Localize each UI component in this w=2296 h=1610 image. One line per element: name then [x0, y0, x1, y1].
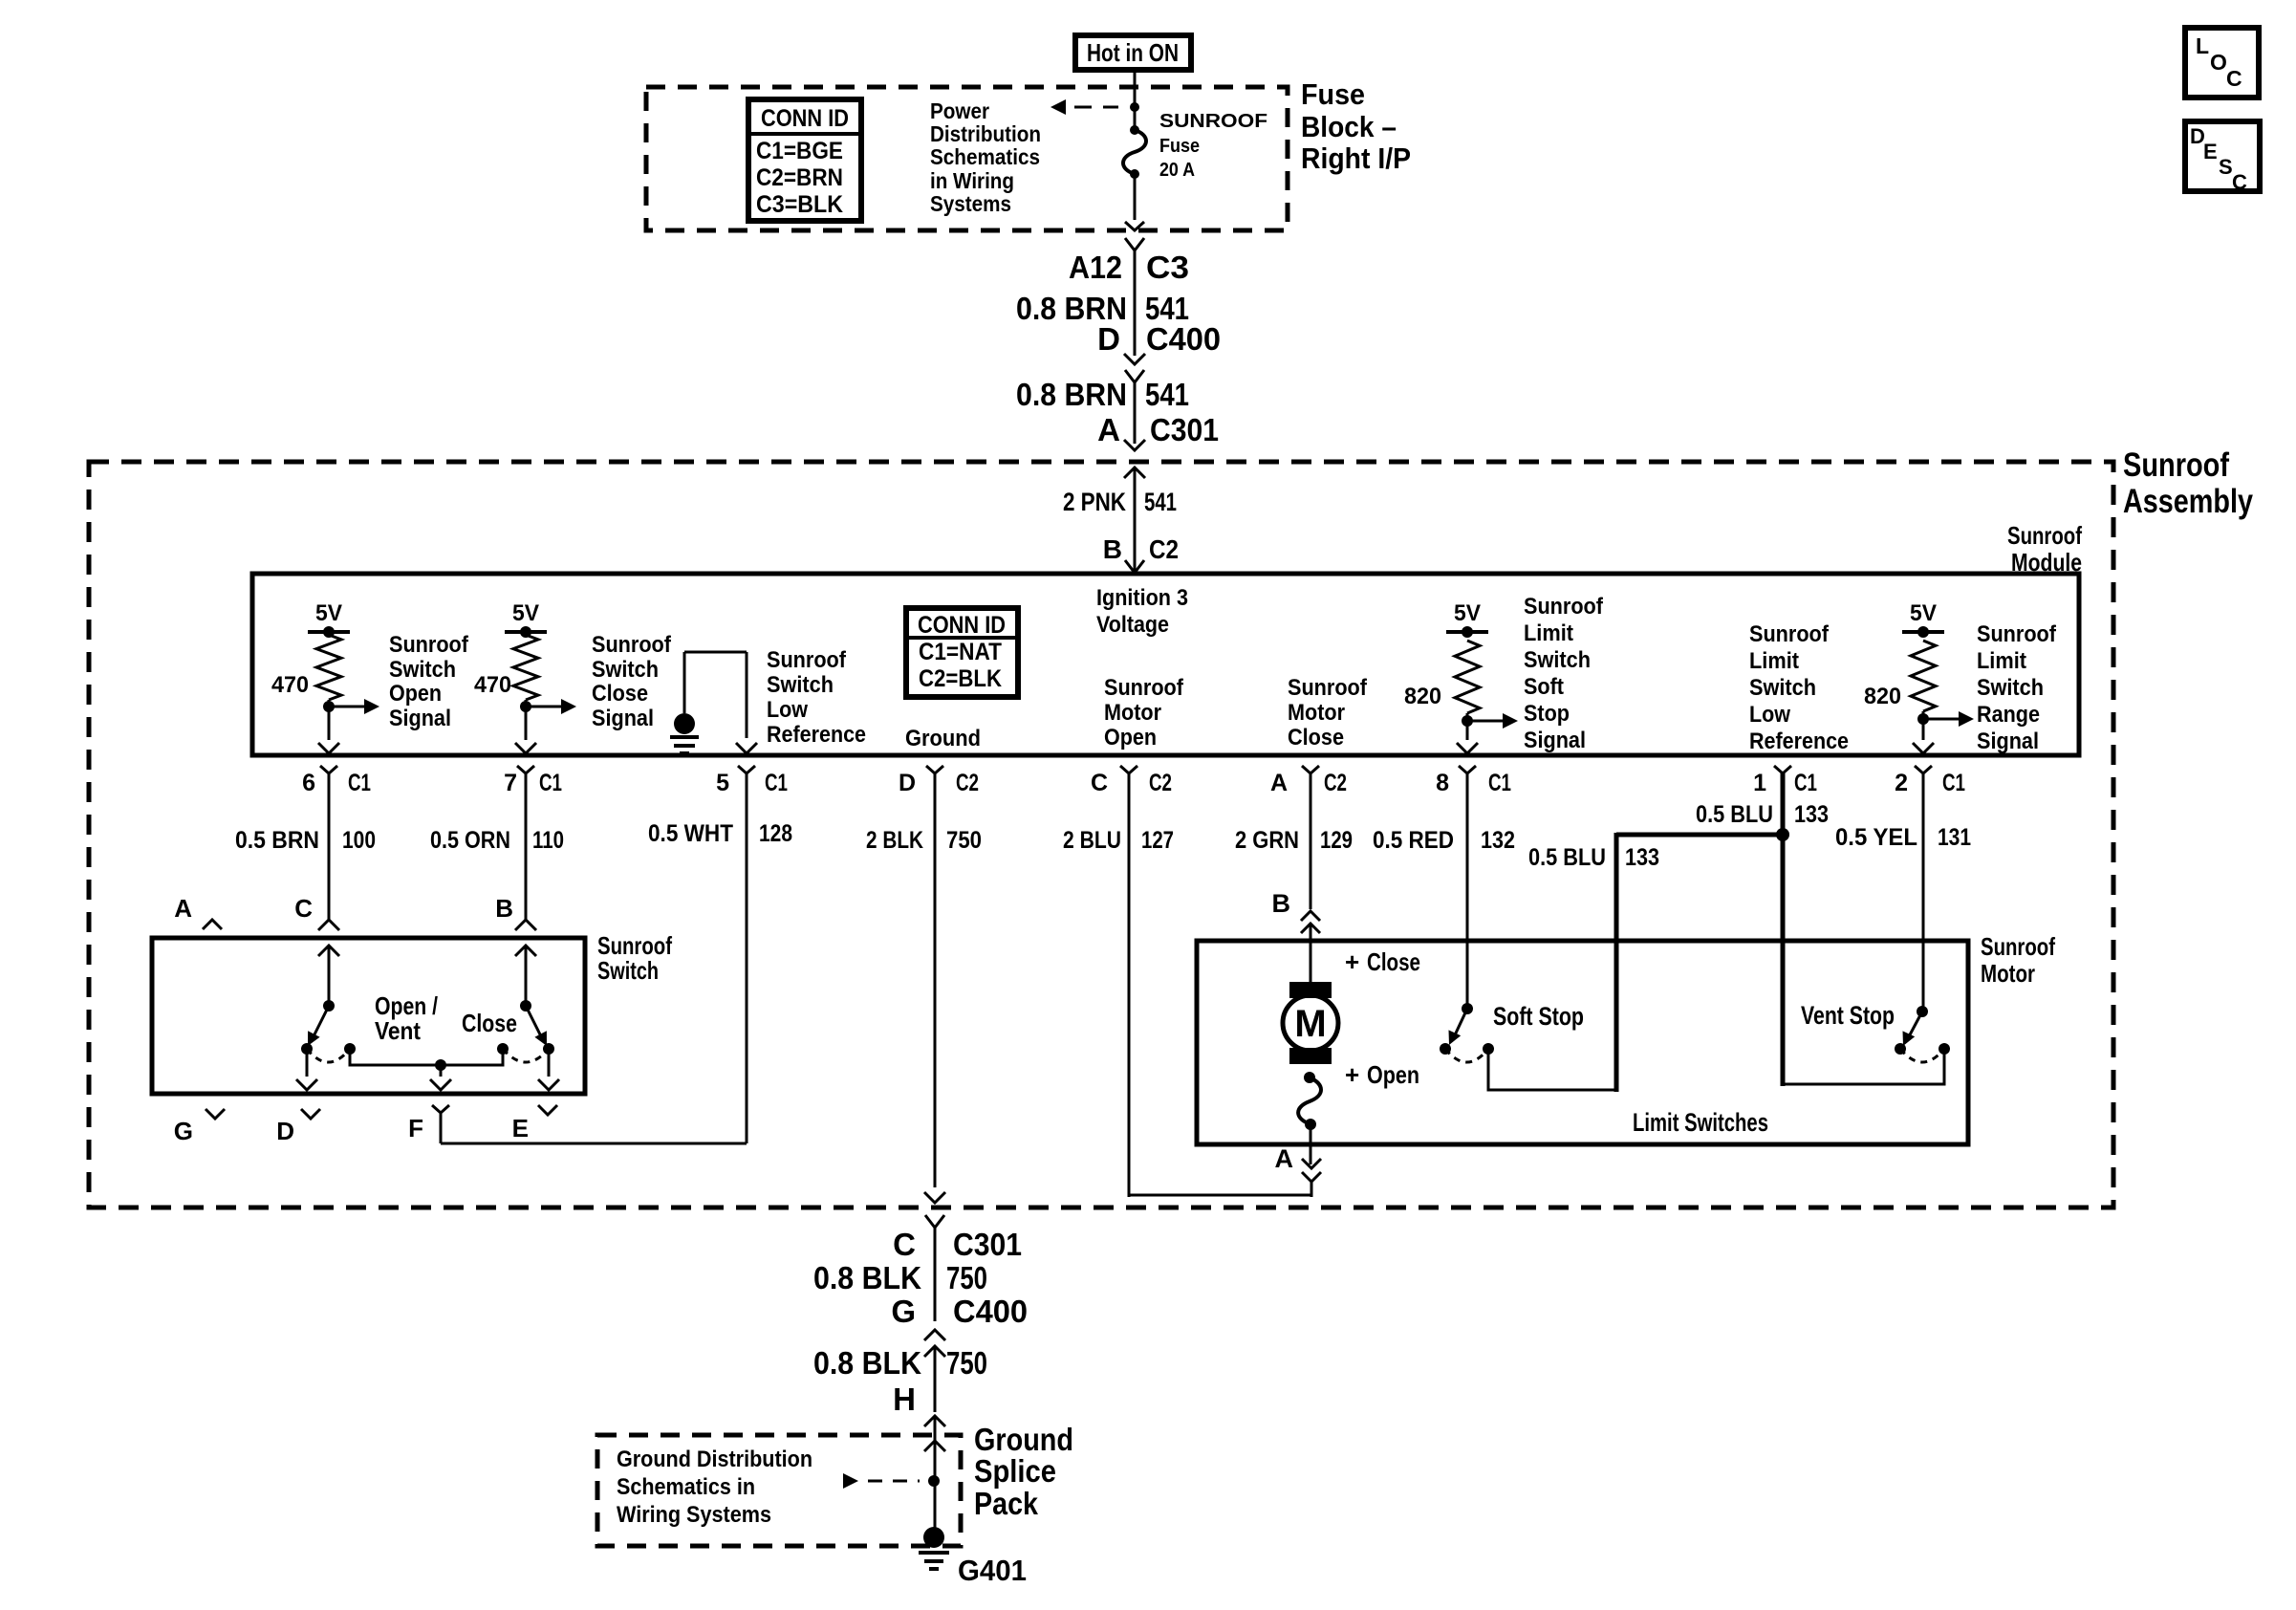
motor M1 — [1283, 982, 1338, 1064]
svg-text:Wiring Systems: Wiring Systems — [617, 1502, 771, 1528]
svg-text:Limit: Limit — [1524, 620, 1573, 646]
Ground Splice Pack label — [974, 1422, 1073, 1521]
svg-text:Sunroof: Sunroof — [2123, 446, 2229, 484]
svg-text:Sunroof: Sunroof — [1104, 675, 1184, 701]
connector C2 at module top — [1125, 560, 1144, 573]
+ Close label — [1345, 947, 1420, 976]
svg-text:0.5 BLU: 0.5 BLU — [1528, 844, 1606, 871]
connector C400 (ground G) — [924, 1330, 945, 1412]
svg-text:C400: C400 — [1146, 321, 1221, 357]
svg-text:E: E — [2203, 140, 2218, 163]
label 820 (R4) — [1864, 684, 1901, 709]
svg-text:Sunroof: Sunroof — [1977, 621, 2057, 647]
wire from Hot in ON to fuse block — [1134, 70, 1137, 91]
dashed reference arrow to power distribution — [1051, 99, 1126, 115]
svg-text:Sunroof: Sunroof — [389, 632, 469, 658]
pin G mark — [174, 1109, 225, 1145]
svg-text:O: O — [2210, 50, 2227, 75]
label 2 BLK 750 — [866, 827, 982, 854]
motor thermal protector — [1298, 1072, 1321, 1130]
Sunroof Switch Open Signal label — [389, 632, 469, 731]
svg-text:Hot in ON: Hot in ON — [1087, 38, 1179, 67]
svg-text:133: 133 — [1625, 844, 1659, 871]
connector pin C C2 at module bottom — [1091, 766, 1172, 796]
svg-text:D: D — [276, 1117, 294, 1145]
dashed gang arc (close) — [503, 1049, 549, 1062]
svg-text:Signal: Signal — [592, 706, 654, 731]
Sunroof Motor Open label — [1104, 675, 1184, 751]
svg-text:D: D — [899, 770, 916, 796]
label 0.8 BLK 750 (upper) — [813, 1260, 987, 1295]
label 470 (R2) — [474, 672, 511, 698]
svg-text:0.8 BRN: 0.8 BRN — [1016, 377, 1127, 412]
svg-text:Vent: Vent — [375, 1016, 421, 1045]
label G C400 — [891, 1294, 1028, 1329]
svg-text:0.5 RED: 0.5 RED — [1373, 827, 1454, 854]
label 820 (R3) — [1404, 684, 1441, 709]
svg-text:C2=BLK: C2=BLK — [919, 665, 1002, 692]
svg-text:C3=BLK: C3=BLK — [756, 191, 843, 218]
svg-text:C: C — [2232, 170, 2247, 194]
terminal B label — [495, 894, 513, 923]
svg-text:C1: C1 — [1794, 770, 1817, 796]
svg-text:Reference: Reference — [767, 722, 866, 748]
svg-text:Schematics in: Schematics in — [617, 1474, 755, 1500]
svg-text:C2: C2 — [1149, 770, 1172, 796]
fuse block dashed box (Fuse Block - Right I/P) — [646, 87, 1288, 230]
svg-text:SUNROOF: SUNROOF — [1159, 111, 1267, 132]
svg-text:E: E — [512, 1114, 529, 1142]
svg-text:Switch: Switch — [597, 956, 659, 985]
svg-text:Fuse: Fuse — [1301, 77, 1365, 111]
internal ground symbol (switch low reference) — [670, 652, 757, 753]
pin E mark — [512, 1105, 557, 1142]
sunroof switch box — [152, 938, 585, 1094]
svg-text:Ground: Ground — [974, 1422, 1073, 1457]
sunroof assembly dashed box — [89, 462, 2113, 1207]
svg-text:5V: 5V — [1910, 600, 1937, 626]
svg-text:Close: Close — [1288, 725, 1344, 751]
svg-text:Open: Open — [1367, 1060, 1419, 1089]
svg-text:2 BLK: 2 BLK — [866, 827, 923, 854]
svg-text:541: 541 — [1144, 488, 1177, 516]
svg-text:0.8 BLK: 0.8 BLK — [813, 1345, 921, 1381]
svg-text:Signal: Signal — [389, 706, 451, 731]
svg-text:A: A — [1270, 770, 1288, 796]
svg-text:Motor: Motor — [1104, 700, 1161, 726]
Sunroof Motor Close label — [1288, 675, 1368, 751]
svg-text:Low: Low — [767, 697, 808, 723]
svg-text:Vent Stop: Vent Stop — [1801, 1001, 1895, 1030]
svg-text:G: G — [891, 1294, 916, 1329]
Fuse Block - Right I/P label — [1301, 77, 1411, 175]
label B C2 — [1103, 534, 1179, 564]
svg-text:Right I/P: Right I/P — [1301, 141, 1411, 175]
svg-text:B: B — [495, 894, 513, 923]
svg-text:Close: Close — [592, 681, 648, 707]
svg-text:0.5 YEL: 0.5 YEL — [1835, 824, 1917, 851]
resistor R1 470 with 5V pull-up — [308, 600, 379, 753]
label 0.8 BRN 541 (upper) — [1016, 291, 1189, 326]
svg-text:Range: Range — [1977, 702, 2040, 728]
wire pin 6 to switch terminal C — [318, 773, 339, 930]
svg-text:G: G — [174, 1117, 193, 1145]
pin F connector — [408, 1105, 449, 1143]
label B (motor terminal) — [1272, 889, 1291, 918]
svg-text:Switch: Switch — [389, 657, 456, 683]
terminal A mark — [174, 894, 222, 929]
svg-text:C1: C1 — [765, 770, 788, 796]
svg-text:C: C — [1091, 770, 1108, 796]
connector pin 2 C1 at module bottom — [1895, 766, 1965, 796]
G401 label — [958, 1554, 1027, 1587]
wire switch F to pin 5 — [441, 1142, 747, 1145]
label 0.5 BRN 100 — [235, 827, 376, 854]
svg-text:A: A — [1275, 1144, 1294, 1173]
svg-text:Sunroof: Sunroof — [2007, 521, 2082, 550]
svg-text:Sunroof: Sunroof — [1288, 675, 1368, 701]
svg-text:C301: C301 — [953, 1227, 1022, 1262]
Soft Stop label — [1493, 1002, 1584, 1031]
svg-text:Fuse: Fuse — [1159, 136, 1200, 157]
label 0.5 ORN 110 — [430, 827, 564, 854]
dashed gang arc (open/vent) — [307, 1049, 350, 1062]
svg-text:0.5 WHT: 0.5 WHT — [648, 820, 733, 847]
Ground pin label — [905, 726, 981, 751]
switch contact to pin D — [296, 1049, 317, 1090]
svg-text:L: L — [2196, 33, 2209, 58]
svg-text:Limit Switches: Limit Switches — [1633, 1108, 1768, 1137]
svg-text:Block –: Block – — [1301, 110, 1397, 143]
motor terminal A wire with connector — [1302, 1124, 1321, 1197]
svg-text:470: 470 — [271, 672, 309, 698]
svg-text:D: D — [1097, 321, 1120, 357]
junction node on fuse feed — [1130, 102, 1139, 112]
svg-text:8: 8 — [1436, 770, 1449, 796]
label 470 (R1) — [271, 672, 309, 698]
label 0.5 WHT 128 — [648, 820, 792, 847]
svg-text:0.8 BLK: 0.8 BLK — [813, 1260, 921, 1295]
svg-text:G401: G401 — [958, 1554, 1027, 1587]
connector C400 (D) — [1124, 354, 1145, 444]
svg-text:in Wiring: in Wiring — [930, 168, 1014, 193]
label 0.8 BRN 541 (lower) — [1016, 377, 1189, 412]
svg-text:Sunroof: Sunroof — [1524, 594, 1604, 620]
Sunroof Limit Switch Soft Stop Signal label — [1524, 594, 1604, 753]
svg-text:Soft Stop: Soft Stop — [1493, 1002, 1584, 1031]
svg-text:C1: C1 — [539, 770, 562, 796]
Sunroof Limit Switch Low Reference label — [1749, 621, 1849, 754]
svg-text:Switch: Switch — [1524, 647, 1591, 673]
svg-text:132: 132 — [1481, 827, 1515, 854]
svg-text:C: C — [2226, 66, 2242, 91]
svg-text:A: A — [1097, 412, 1120, 447]
soft stop limit switch — [1440, 1003, 1616, 1090]
svg-text:H: H — [893, 1382, 916, 1417]
svg-text:100: 100 — [342, 827, 376, 854]
CONN ID table (fuse block) — [748, 99, 861, 221]
label 0.5 BLU 133 (pin 1) — [1696, 801, 1829, 828]
CONN ID table (module) — [906, 608, 1018, 697]
label 0.5 YEL 131 — [1835, 824, 1971, 851]
svg-text:C1: C1 — [348, 770, 371, 796]
svg-text:C301: C301 — [1150, 412, 1219, 447]
svg-text:5V: 5V — [512, 600, 539, 626]
svg-text:CONN ID: CONN ID — [761, 105, 849, 132]
terminal C label — [294, 894, 313, 923]
Sunroof Assembly label — [2123, 446, 2253, 520]
Power Distribution Schematics note — [930, 98, 1041, 216]
svg-text:Sunroof: Sunroof — [1981, 932, 2055, 961]
svg-text:Soft: Soft — [1524, 674, 1564, 700]
wire pin 2 down (vent stop) — [1922, 773, 1925, 1012]
Ground Distribution note — [617, 1447, 812, 1528]
svg-text:S: S — [2219, 155, 2233, 179]
Sunroof Switch label — [597, 931, 672, 985]
label H — [893, 1382, 916, 1417]
svg-text:2: 2 — [1895, 770, 1908, 796]
connector C301 (ground C) — [925, 1215, 944, 1321]
svg-text:Power: Power — [930, 98, 989, 123]
svg-text:Sunroof: Sunroof — [1749, 621, 1830, 647]
label A12 C3 — [1069, 250, 1189, 285]
svg-text:Systems: Systems — [930, 191, 1011, 216]
connector pin A C2 at module bottom — [1270, 766, 1347, 796]
svg-text:127: 127 — [1141, 827, 1174, 854]
pin D mark — [276, 1109, 320, 1145]
wire pin 7 to switch terminal B — [515, 773, 536, 930]
resistor R2 470 with 5V pull-up — [505, 600, 576, 753]
label 2 PNK 541 — [1063, 488, 1177, 516]
DESC nav icon — [2185, 121, 2260, 194]
resistor R3 820 with 5V pull-up — [1446, 600, 1518, 753]
label A C301 — [1097, 412, 1219, 447]
svg-text:Sunroof: Sunroof — [767, 647, 847, 673]
svg-text:A: A — [174, 894, 192, 923]
svg-text:C1=NAT: C1=NAT — [919, 639, 1002, 665]
svg-text:2 BLU: 2 BLU — [1063, 827, 1121, 854]
svg-text:20 A: 20 A — [1159, 160, 1195, 181]
svg-text:C: C — [893, 1227, 916, 1262]
svg-text:B: B — [1103, 534, 1122, 564]
svg-text:Schematics: Schematics — [930, 144, 1040, 169]
ground distribution dashed box — [597, 1435, 961, 1546]
connector pin 8 C1 at module bottom — [1436, 766, 1511, 796]
switch arm close (from B) — [515, 946, 554, 1055]
svg-text:0.5 BLU: 0.5 BLU — [1696, 801, 1773, 828]
svg-text:C2: C2 — [1324, 770, 1347, 796]
svg-text:Limit: Limit — [1977, 648, 2026, 674]
label 2 BLU 127 — [1063, 827, 1174, 854]
Limit Switches label — [1633, 1108, 1768, 1137]
switch common contacts to pin F — [344, 1043, 509, 1090]
svg-text:Motor: Motor — [1288, 700, 1345, 726]
Sunroof Motor label — [1981, 932, 2055, 988]
svg-text:Ground Distribution: Ground Distribution — [617, 1447, 812, 1472]
svg-text:541: 541 — [1145, 377, 1189, 412]
svg-text:128: 128 — [759, 820, 792, 847]
svg-text:750: 750 — [946, 1260, 987, 1295]
svg-text:133: 133 — [1794, 801, 1829, 828]
svg-text:Close: Close — [1367, 947, 1420, 976]
label D C400 — [1097, 321, 1221, 357]
switch arm open/vent (from C) — [301, 946, 339, 1055]
label 0.8 BLK 750 (lower) — [813, 1345, 987, 1381]
connector pin 1 C1 at module bottom — [1753, 766, 1817, 796]
svg-text:129: 129 — [1320, 827, 1353, 854]
svg-text:Close: Close — [462, 1009, 517, 1037]
svg-text:Open: Open — [1104, 725, 1157, 751]
label A (motor terminal) — [1275, 1144, 1294, 1173]
svg-text:470: 470 — [474, 672, 511, 698]
svg-text:C2: C2 — [956, 770, 979, 796]
svg-text:Stop: Stop — [1524, 701, 1570, 727]
wire pin C down (motor open) — [1128, 773, 1131, 1197]
connector pin 6 C1 at module bottom — [302, 766, 371, 796]
svg-text:131: 131 — [1938, 824, 1971, 851]
svg-text:Switch: Switch — [1977, 675, 2044, 701]
svg-text:110: 110 — [532, 827, 564, 854]
dashed reference arrow to ground distribution — [843, 1473, 920, 1489]
svg-text:Splice: Splice — [974, 1453, 1056, 1489]
svg-text:2 PNK: 2 PNK — [1063, 488, 1126, 516]
svg-text:0.5 ORN: 0.5 ORN — [430, 827, 510, 854]
svg-text:820: 820 — [1404, 684, 1441, 709]
svg-text:Ground: Ground — [905, 726, 981, 751]
0.5 BLU branch wire with junction — [1616, 828, 1789, 1092]
svg-text:Assembly: Assembly — [2123, 483, 2253, 520]
svg-text:C1=BGE: C1=BGE — [756, 138, 843, 164]
svg-text:Switch: Switch — [1749, 675, 1816, 701]
svg-text:1: 1 — [1753, 770, 1766, 796]
svg-text:820: 820 — [1864, 684, 1901, 709]
svg-text:Voltage: Voltage — [1096, 612, 1169, 638]
svg-text:C400: C400 — [953, 1294, 1028, 1329]
Sunroof Module label — [2007, 521, 2082, 577]
SUNROOF Fuse 20 A label — [1159, 111, 1267, 181]
svg-text:5V: 5V — [1454, 600, 1481, 626]
svg-text:+: + — [1345, 1060, 1359, 1089]
sunroof motor box — [1197, 941, 1968, 1144]
fuse F1 SUNROOF 20A — [1123, 91, 1146, 230]
svg-text:Switch: Switch — [767, 672, 834, 698]
svg-text:C1: C1 — [1488, 770, 1511, 796]
svg-text:2 GRN: 2 GRN — [1235, 827, 1299, 854]
svg-text:Pack: Pack — [974, 1486, 1039, 1521]
wire pin C to motor terminal A — [1129, 1194, 1311, 1197]
Close label — [462, 1009, 517, 1037]
wire pin A down to motor terminal B — [1301, 773, 1320, 983]
connector pin D C2 at module bottom — [899, 766, 979, 796]
svg-text:F: F — [408, 1114, 423, 1142]
svg-text:Reference: Reference — [1749, 729, 1849, 754]
junction on splice wire — [924, 1441, 945, 1487]
svg-text:0.5 BRN: 0.5 BRN — [235, 827, 319, 854]
svg-text:C1: C1 — [1942, 770, 1965, 796]
svg-text:6: 6 — [302, 770, 315, 796]
svg-text:Switch: Switch — [592, 657, 659, 683]
svg-text:7: 7 — [504, 770, 517, 796]
svg-text:Signal: Signal — [1977, 729, 2039, 754]
svg-text:CONN ID: CONN ID — [918, 612, 1006, 639]
connector C301 at assembly border — [1124, 440, 1145, 573]
connector pin 5 C1 at module bottom — [716, 766, 788, 796]
svg-text:M: M — [1294, 1003, 1326, 1045]
svg-text:Open: Open — [389, 681, 442, 707]
Ignition 3 Voltage label — [1096, 585, 1188, 638]
svg-text:B: B — [1272, 889, 1291, 918]
label 0.5 RED 132 — [1373, 827, 1515, 854]
svg-text:750: 750 — [946, 1345, 987, 1381]
connector C3 (A12) — [1125, 238, 1144, 356]
connector H at splice pack — [924, 1416, 945, 1530]
Hot in ON power label box — [1075, 35, 1191, 70]
svg-text:Motor: Motor — [1981, 959, 2035, 988]
svg-text:C2=BRN: C2=BRN — [756, 164, 843, 191]
svg-text:750: 750 — [946, 827, 982, 854]
switch contact to pin E — [538, 1049, 559, 1090]
wire pin 8 down (soft stop) — [1466, 773, 1469, 1009]
LOC nav icon — [2185, 28, 2259, 98]
label C C301 — [893, 1227, 1022, 1262]
svg-text:A12: A12 — [1069, 250, 1122, 285]
svg-text:Limit: Limit — [1749, 648, 1799, 674]
wire pin D ground down — [924, 773, 945, 1203]
svg-text:Ignition 3: Ignition 3 — [1096, 585, 1188, 611]
Sunroof Switch Low Reference label — [767, 647, 866, 748]
resistor R4 820 with 5V pull-up — [1902, 600, 1974, 753]
svg-text:C2: C2 — [1149, 534, 1179, 564]
Vent Stop label — [1801, 1001, 1895, 1030]
svg-text:5V: 5V — [315, 600, 342, 626]
wire pin 1 down (limit low reference) — [1781, 773, 1786, 1086]
svg-text:Signal: Signal — [1524, 728, 1586, 753]
Sunroof Limit Switch Range Signal label — [1977, 621, 2057, 754]
label 2 GRN 129 — [1235, 827, 1353, 854]
svg-text:+: + — [1345, 947, 1359, 976]
svg-text:5: 5 — [716, 770, 729, 796]
svg-text:Low: Low — [1749, 702, 1790, 728]
sunroof module box — [252, 574, 2079, 755]
connector pin 7 C1 at module bottom — [504, 766, 562, 796]
svg-text:Distribution: Distribution — [930, 121, 1041, 146]
Sunroof Switch Close Signal label — [592, 632, 672, 731]
wire pin 5 down (switch low reference) — [746, 773, 748, 1143]
label 0.5 BLU 133 (branch) — [1528, 844, 1659, 871]
splice pack G401 ground — [919, 1527, 949, 1569]
vent stop limit switch — [1784, 1006, 1950, 1084]
svg-text:C: C — [294, 894, 313, 923]
svg-text:C3: C3 — [1146, 250, 1189, 285]
+ Open label — [1345, 1060, 1419, 1089]
svg-text:Sunroof: Sunroof — [592, 632, 672, 658]
Open / Vent label — [375, 991, 438, 1045]
